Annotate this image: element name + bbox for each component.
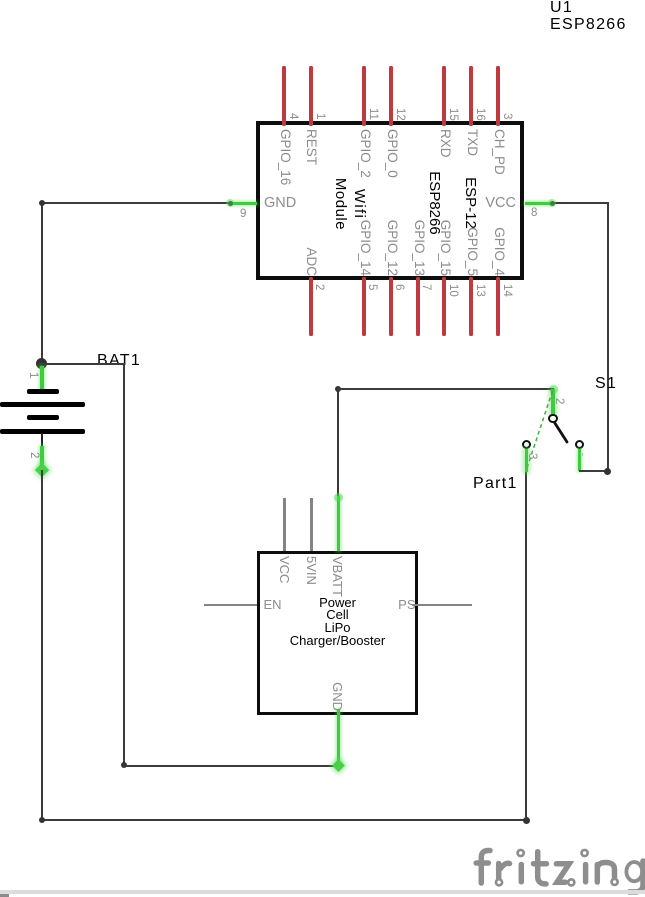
ESP side pin numbers (240, 209, 246, 220)
switch throw terminal circle (pin 3) (522, 440, 531, 449)
charger pin PS (gray) (412, 604, 472, 607)
switch pin 2 number (553, 398, 564, 404)
ESP side pin labels (264, 196, 296, 210)
wire VBATT to switch horizontal (337, 388, 554, 390)
fritzing logo (460, 840, 645, 897)
ring at n foot (612, 879, 618, 885)
letter f (481, 851, 490, 884)
wire battery- down (41, 470, 43, 821)
battery pin 1 (green) (40, 366, 44, 391)
wire battery+ to ESP GND: horizontal segment (41, 202, 230, 204)
green marker at battery pin 2 end (35, 463, 49, 477)
ESP bottom pin 10 GPIO_15 (442, 277, 446, 336)
wire BAT1 node: vertical (123, 363, 125, 766)
letter r (499, 863, 510, 878)
bottom window edge line (0, 890, 645, 894)
ESP bottom pin numbers (313, 284, 324, 290)
charger pin VBATT (green) (337, 496, 341, 551)
battery BAT1 label (97, 353, 141, 369)
ESP center label ESP8266 (rotated) (426, 171, 442, 234)
wire to charger GND pin: horizontal (123, 765, 338, 767)
charger pin VCC (gray) (283, 498, 286, 551)
charger pin labels (277, 556, 291, 583)
battery plate long (bottom) (0, 429, 85, 434)
label U1 / ESP8266 top right (550, 0, 627, 33)
IC U1 ESP8266 module body (256, 121, 524, 280)
battery pin 2 (green) (40, 446, 44, 470)
ESP bottom pin 6 GPIO_12 (389, 277, 393, 336)
junction dot (526,820) (523, 817, 530, 824)
switch common terminal circle (pin 2) (548, 414, 557, 423)
ESP top pin 4 GPIO_16 (282, 66, 286, 126)
battery pin 2 number (28, 452, 39, 458)
charger pin 5VIN (gray) (310, 498, 313, 551)
ESP pin 8 VCC (green, connected) (525, 202, 552, 206)
switch pin 1 (green) (578, 449, 582, 471)
charger pin EN (gray) (204, 604, 257, 607)
bottom-left scrollbar nub (0, 894, 9, 897)
letter t (538, 852, 546, 884)
ESP top pin numbers (287, 113, 298, 119)
ESP top pin 3 CH_PD (496, 66, 500, 126)
ESP top pin 11 GPIO_2 (362, 66, 366, 126)
ESP bottom pin 2 ADC (309, 277, 313, 336)
wire end glow at switch pin2 top (549, 385, 558, 394)
charger Part1 body (257, 551, 419, 716)
wire VCC to switch: horizontal (551, 202, 608, 204)
wire end dot at ESP VCC pin (550, 201, 555, 206)
battery plate short (top) (27, 389, 59, 394)
wire VBATT up (337, 388, 339, 496)
junction dot at battery + node (36, 358, 47, 369)
switch pin 3 number (526, 453, 537, 459)
charger center label (257, 597, 418, 648)
wire BAT1 node to charger GND: horizontal top (42, 363, 124, 365)
ESP bottom pin 5 GPIO_14 (362, 277, 366, 336)
switch lever (550, 418, 575, 448)
switch pin 3 (green) (525, 449, 529, 472)
ESP pin 9 GND (green, connected) (230, 202, 257, 206)
switch pin 1 number (577, 453, 588, 456)
letter i (1st) (519, 865, 525, 882)
bendpoint dot at (42,203) (39, 200, 45, 206)
ESP top pin 12 GPIO_0 (389, 66, 393, 126)
letter g (626, 862, 642, 881)
bend dot (338,389) (335, 386, 341, 392)
wire end dot at ESP GND pin (228, 201, 233, 206)
battery stub below plates (41, 433, 43, 446)
ESP bottom pin 14 GPIO_4 (496, 277, 500, 336)
letter z (556, 864, 569, 882)
wire bottom horizontal (41, 819, 527, 821)
switch dashed state line pin2-pin3 (520, 385, 560, 475)
ring at r foot (496, 879, 502, 885)
ESP bottom pin labels (end at box bottom) (304, 128, 318, 276)
ESP bottom pin 13 GPIO_5 (469, 277, 473, 336)
charger pin GND (green) (337, 709, 341, 769)
bend dot (123.5,765) (121, 762, 127, 768)
switch S1 label (595, 376, 617, 392)
letter i (2nd) (583, 865, 589, 882)
ESP top pin 15 RXD (442, 66, 446, 126)
ring i dot (1st) (518, 850, 524, 856)
wire switch pin1 to VCC net (579, 470, 608, 472)
label Part1 (473, 476, 518, 492)
switch pin 2 (green) (551, 389, 555, 416)
wire switch pin3 down (525, 471, 527, 820)
junction dot (607.5,471) (604, 468, 611, 475)
ESP center label Wifi Module (rotated) (351, 188, 367, 218)
ESP bottom pin 7 GPIO_13 (416, 277, 420, 336)
ESP top pin 1 REST (309, 66, 313, 126)
battery pin 1 number (27, 372, 38, 378)
ring i dot (2nd) (582, 850, 588, 856)
ESP top pin 16 TXD (469, 66, 473, 126)
battery plate short (middle) (27, 415, 59, 420)
wire end glow at VBATT pin top (334, 493, 343, 502)
battery plate long (0, 402, 85, 407)
ring at z foot (568, 879, 574, 885)
wire VCC to switch: vertical down (607, 202, 609, 471)
wire battery+ to ESP GND: vertical segment (41, 202, 43, 364)
ESP top pin labels (278, 129, 292, 185)
ESP center label ESP-12 (rotated) (462, 177, 478, 229)
green marker at GND wire join (332, 759, 345, 772)
switch throw terminal circle (pin 1) (575, 440, 584, 449)
bend dot (42,820) (39, 817, 45, 823)
letter n (597, 863, 614, 883)
